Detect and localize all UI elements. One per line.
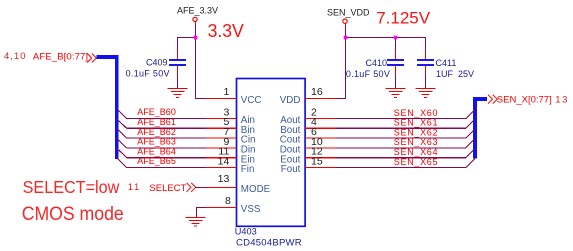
svg-text:U403: U403 [235, 227, 257, 237]
pin 3 Ain stub [206, 118, 237, 120]
wire C411 to ground [425, 75, 427, 88]
pin 9 Din stub [206, 147, 237, 149]
wire SEN_X62 [336, 137, 466, 139]
svg-text:SEN_X61: SEN_X61 [394, 118, 438, 128]
bus entry AFE_B63 [117, 139, 127, 148]
bus entry SEN_X63 [466, 139, 475, 148]
capacitor C409 [126, 50, 186, 79]
svg-text:11: 11 [128, 182, 141, 193]
pin 6 Cout stub [305, 137, 336, 139]
svg-text:1: 1 [223, 86, 229, 98]
power symbol SEN_VDD [327, 8, 370, 27]
svg-text:Fout: Fout [281, 164, 301, 175]
bus entry SEN_X62 [466, 129, 475, 138]
svg-text:SEN_X65: SEN_X65 [394, 157, 438, 167]
svg-text:VSS: VSS [241, 204, 261, 215]
svg-text:SELECT=low: SELECT=low [23, 177, 120, 197]
svg-text:C410: C410 [366, 58, 388, 68]
svg-text:AFE_B65: AFE_B65 [137, 156, 176, 166]
off-page connector SEN_X[0:77] [488, 95, 569, 106]
svg-text:CD4504BPWR: CD4504BPWR [236, 237, 302, 248]
svg-text:8: 8 [225, 195, 231, 207]
capacitor C411 [417, 50, 474, 79]
svg-text:16: 16 [311, 86, 323, 98]
svg-text:VCC: VCC [241, 95, 262, 106]
bus entry AFE_B62 [117, 129, 127, 138]
wire AFE_B63 [127, 147, 206, 149]
pin 8 VSS stub [206, 207, 237, 209]
svg-text:CMOS mode: CMOS mode [22, 202, 124, 224]
pin 1 VCC stub [206, 98, 237, 100]
svg-text:VDD: VDD [280, 95, 301, 106]
wire C410 to ground [395, 75, 397, 88]
svg-text:AFE_3.3V: AFE_3.3V [177, 6, 218, 16]
wire SEN_X60 [336, 118, 466, 120]
wire SEN_X64 [336, 157, 466, 159]
wire AFE_B62 [127, 137, 206, 139]
svg-text:SEN_VDD: SEN_VDD [327, 8, 370, 18]
pin 10 Dout stub [305, 147, 336, 149]
svg-text:0.1uF 50V: 0.1uF 50V [346, 69, 390, 79]
svg-text:SEN_X60: SEN_X60 [394, 108, 438, 118]
svg-text:AFE_B[0:77]: AFE_B[0:77] [33, 51, 88, 62]
wire SEN_X61 [336, 127, 466, 129]
svg-text:7.125V: 7.125V [376, 9, 431, 28]
svg-text:13: 13 [218, 173, 230, 185]
chip U403 outline [237, 79, 306, 227]
power symbol AFE_3.3V [177, 6, 218, 26]
pin 14 Fin stub [206, 167, 237, 169]
junction 3.3V rail [194, 36, 198, 40]
bus entry AFE_B60 [117, 109, 127, 118]
wire VSS to ground [197, 208, 207, 218]
pin 4 Bout stub [305, 127, 336, 129]
svg-text:AFE_B61: AFE_B61 [137, 117, 176, 127]
bus entry AFE_B65 [117, 158, 127, 167]
pin 12 Eout stub [305, 157, 336, 159]
svg-text:0.1uF 50V: 0.1uF 50V [126, 69, 170, 79]
svg-text:15: 15 [311, 155, 323, 167]
svg-text:AFE_B60: AFE_B60 [137, 107, 176, 117]
svg-text:C409: C409 [146, 58, 168, 68]
capacitor C410 [346, 50, 404, 79]
pin 5 Bin stub [206, 127, 237, 129]
bus entry SEN_X65 [466, 159, 475, 168]
off-page connector AFE_B[0:77] [4, 51, 96, 63]
wire C409 to ground [177, 75, 179, 88]
wire SEN_X65 [336, 167, 466, 169]
wire SEN_VDD down to pin 16 VDD [336, 27, 346, 99]
bus entry SEN_X60 [466, 110, 475, 119]
junction SEN_VDD rail [344, 36, 348, 40]
svg-text:AFE_B64: AFE_B64 [137, 146, 176, 156]
pin 2 Aout stub [305, 118, 336, 120]
svg-text:C411: C411 [436, 58, 457, 68]
wire SEN_X63 [336, 147, 466, 149]
pin 15 Fout stub [305, 167, 336, 169]
svg-text:1UF 25V: 1UF 25V [436, 69, 474, 79]
svg-text:SEN_X63: SEN_X63 [394, 137, 438, 147]
pin 16 VDD stub [305, 98, 336, 100]
svg-text:SEN_X62: SEN_X62 [394, 127, 438, 137]
svg-text:Fin: Fin [241, 164, 255, 175]
wire AFE_B64 [127, 157, 206, 159]
bus entry SEN_X61 [466, 119, 475, 128]
svg-text:SEN_X64: SEN_X64 [394, 147, 438, 157]
wire AFE_3.3V down to pin 1 VCC [196, 25, 207, 99]
wire AFE_B61 [127, 127, 206, 129]
wire branch to C410 [395, 38, 397, 51]
svg-text:AFE_B63: AFE_B63 [137, 137, 176, 147]
ground at VSS [186, 218, 206, 227]
pin 13 MODE stub [206, 187, 237, 189]
ground at C411 [416, 89, 436, 98]
port SELECT [128, 182, 196, 194]
svg-text:3.3V: 3.3V [208, 21, 244, 42]
bus entry AFE_B61 [117, 119, 127, 128]
svg-text:SELECT: SELECT [149, 183, 186, 194]
bus AFE_B [97, 57, 117, 159]
wire AFE_B60 [127, 118, 206, 120]
svg-text:4,10: 4,10 [4, 51, 27, 62]
svg-text:AFE_B62: AFE_B62 [137, 127, 176, 137]
pin 11 Ein stub [206, 157, 237, 159]
pin 7 Cin stub [206, 137, 237, 139]
svg-text:13: 13 [555, 95, 569, 106]
wire SELECT to MODE [196, 187, 206, 189]
bus SEN_X [475, 99, 487, 159]
wire branch to C409 [178, 38, 196, 51]
svg-text:MODE: MODE [241, 184, 271, 195]
junction C410 tap [394, 36, 398, 40]
bus entry AFE_B64 [117, 148, 127, 157]
wire AFE_B65 [127, 167, 206, 169]
svg-text:SEN_X[0:77]: SEN_X[0:77] [497, 95, 552, 106]
ground at C409 [168, 89, 188, 98]
ground at C410 [386, 89, 406, 98]
bus entry SEN_X64 [466, 149, 475, 158]
wire SEN_VDD rail to C411 [346, 38, 426, 51]
svg-text:14: 14 [218, 155, 230, 167]
